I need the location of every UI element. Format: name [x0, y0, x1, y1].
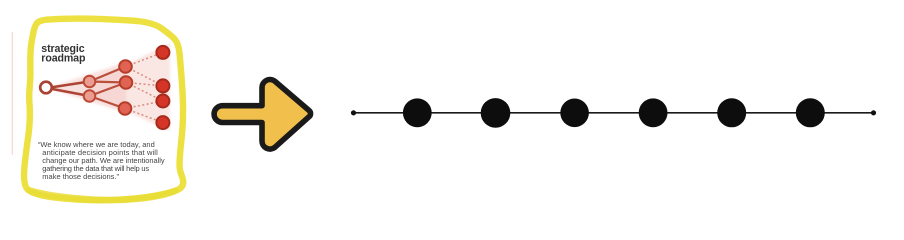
dashed wire middle mid to right node 3 — [126, 83, 163, 102]
node mid bottom — [119, 102, 132, 115]
svg-text:roadmap: roadmap — [41, 53, 86, 65]
timeline wire — [354, 112, 874, 114]
wire upper pink to middle mid node — [90, 82, 127, 83]
milestone dot 5 — [717, 98, 746, 127]
faint pink screenshot edge line — [11, 32, 13, 155]
milestone dot 4 — [639, 98, 668, 127]
milestone dot 3 — [560, 99, 589, 128]
pink fan wedge from root — [47, 62, 126, 113]
node root (open circle) — [40, 82, 52, 94]
node mid middle — [120, 76, 133, 89]
node mid top — [119, 60, 132, 73]
wire lower pink to middle mid node — [90, 83, 127, 97]
wire upper pink to top mid node — [90, 67, 126, 82]
dashed wire bottom mid to right node 3 — [125, 101, 163, 109]
sticky note card group — [12, 19, 183, 201]
wire root to upper pink node — [47, 82, 90, 89]
timeline left endpoint dot — [351, 110, 356, 115]
pink fan wedges group — [47, 43, 170, 131]
svg-text:make those decisions.”: make those decisions.” — [42, 172, 119, 181]
wire lower pink to bottom mid node — [90, 96, 126, 109]
milestone dot 6 — [796, 98, 825, 127]
dashed wire top mid to right node 1 — [126, 52, 164, 66]
yellow hand-drawn border — [24, 19, 183, 201]
dashed wire middle mid to right node 2 — [126, 83, 163, 86]
wire root to lower pink node — [47, 88, 90, 96]
node right 3 — [156, 95, 169, 108]
dashed wire bottom mid to right node 4 — [125, 109, 163, 123]
pink fan wedge to right column — [90, 43, 170, 131]
timeline right endpoint dot — [871, 110, 876, 115]
node right 1 — [156, 46, 169, 59]
milestone dot 2 — [481, 98, 511, 128]
milestone dot 1 — [403, 98, 432, 127]
dashed wire top mid to right node 2 — [126, 67, 164, 86]
node right 4 — [156, 116, 169, 129]
big yellow arrow — [214, 80, 310, 150]
yellow border second pass along bottom — [30, 191, 175, 200]
node right 2 — [156, 79, 169, 92]
node pink upper — [84, 76, 96, 88]
node pink lower — [84, 90, 96, 102]
